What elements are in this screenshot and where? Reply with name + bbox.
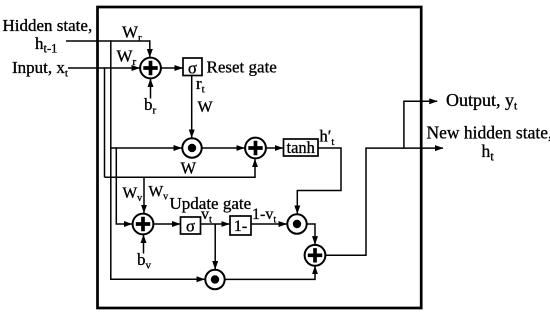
wire: b_v bias arrow into update adder <box>143 235 145 254</box>
svg-text:h′t: h′t <box>320 127 335 149</box>
wire: h to reset multiplier <box>111 147 182 149</box>
svg-text:Wv: Wv <box>149 184 169 203</box>
svg-text:1-: 1- <box>234 218 247 235</box>
wire: h branch drop down to bottom multiplier <box>111 40 205 279</box>
wire: output y_t branch <box>404 101 437 148</box>
svg-text:σ: σ <box>186 217 195 236</box>
svg-text:Wr: Wr <box>122 23 142 45</box>
sigma box (reset gate) <box>183 58 202 78</box>
multiplier M1 (r * h) circle-dot <box>182 138 201 157</box>
wire: b_r bias arrow into reset adder <box>150 79 152 99</box>
svg-text:Wr: Wr <box>117 47 137 69</box>
wire: branch from r-mult wire down into update adder left <box>116 147 132 224</box>
svg-text:New hidden state,: New hidden state, <box>427 123 550 143</box>
svg-text:Reset gate: Reset gate <box>207 58 277 77</box>
wire: reset adder to sigma box <box>161 67 183 69</box>
wire: update adder to sigma2 <box>154 223 181 225</box>
svg-text:1-vt: 1-vt <box>252 206 276 226</box>
svg-text:Input, xt: Input, xt <box>12 58 68 80</box>
wire: W line from x_t drop to tanh adder bottom <box>105 159 256 177</box>
svg-text:Hidden state,: Hidden state, <box>3 16 93 35</box>
wire: W_v drop into update adder top <box>143 177 145 213</box>
wire: h' from tanh down to output multiplier <box>297 148 341 214</box>
wire: sigma2 to 1- box <box>201 223 230 225</box>
adder U-reset (circle plus) <box>140 58 161 79</box>
wire: M2 to final adder <box>307 224 315 244</box>
svg-text:ht: ht <box>482 141 495 164</box>
svg-text:bv: bv <box>137 250 152 272</box>
label: Hidden state, h_t-1 <box>3 16 93 56</box>
tanh box <box>284 138 319 157</box>
wire: new hidden state output h_t <box>365 147 443 149</box>
svg-text:rt: rt <box>196 74 205 96</box>
wire: input x_t into reset adder <box>68 67 140 69</box>
sigma box (update gate) <box>181 217 201 236</box>
wire: final adder output up to h_t line <box>326 148 367 255</box>
svg-text:br: br <box>144 95 157 117</box>
multiplier M2 ((1-v)*h') circle-dot <box>287 214 306 233</box>
wire: tanh adder to tanh box <box>266 147 283 149</box>
adder U (update adder) <box>133 214 154 235</box>
wire: x_t drop down to W wire <box>104 67 106 177</box>
wire: 1- box to output multiplier <box>251 223 287 225</box>
wire: v_t drop to bottom multiplier <box>214 224 216 269</box>
box 1- (one minus) <box>230 216 251 235</box>
svg-text:Update gate: Update gate <box>170 194 252 213</box>
svg-text:ht-1: ht-1 <box>35 34 57 56</box>
adder F (final adder) <box>305 245 326 266</box>
svg-text:Wv: Wv <box>123 185 143 204</box>
label: New hidden state, h_t <box>427 123 550 164</box>
svg-text:W: W <box>181 159 197 178</box>
multiplier M3 (v*x) circle-dot <box>205 270 224 289</box>
GRU cell boundary box <box>98 7 422 308</box>
wire: M3 to final adder bottom <box>225 266 315 279</box>
adder T (tanh adder) <box>245 138 266 159</box>
svg-text:Output, yt: Output, yt <box>446 90 518 113</box>
wire: r_t from sigma down to multiplier <box>191 76 193 138</box>
svg-text:W: W <box>198 99 214 116</box>
wire: hidden state input h_t-1 <box>66 40 151 42</box>
wire: W_r drop into reset adder <box>149 40 151 57</box>
wire: multiplier to tanh adder <box>202 147 245 149</box>
svg-text:tanh: tanh <box>286 138 315 157</box>
